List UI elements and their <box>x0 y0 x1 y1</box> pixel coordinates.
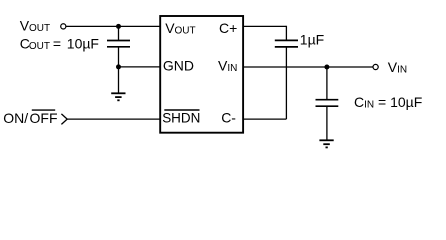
wire VOUT terminal to IC VOUT pin <box>66 25 160 27</box>
svg-text:GND: GND <box>163 58 194 74</box>
capacitor COUT <box>107 40 130 42</box>
wire corner down to C1 top plate <box>285 26 287 41</box>
op-amp U1 (IC body) <box>160 16 243 133</box>
wire back to IC C- pin <box>243 118 286 120</box>
svg-text:SHDN: SHDN <box>162 110 200 126</box>
wire IC VIN pin to VIN terminal <box>243 66 373 68</box>
svg-text:=: = <box>53 36 61 52</box>
ground (right) <box>319 140 333 147</box>
wire GND junction to IC GND pin <box>119 66 161 68</box>
svg-text:1µF: 1µF <box>300 32 324 48</box>
wire IC C+ pin to flying cap <box>243 25 286 27</box>
wire SHDN input to IC SHDN pin <box>67 118 160 120</box>
wire GND junction down to ground <box>118 67 120 93</box>
svg-text:10µF: 10µF <box>67 36 99 52</box>
overline for OFF <box>32 109 55 111</box>
capacitor C1 1uF (flying capacitor) <box>275 39 298 41</box>
wire COUT bottom plate down to GND junction <box>118 47 120 67</box>
ground (left) <box>111 93 125 100</box>
svg-text:ON/: ON/ <box>3 110 28 126</box>
wire C1 bottom plate down to C- level (crosses VIN wire) <box>285 47 287 119</box>
overline for SHDN <box>164 109 199 111</box>
node VIN terminal circle <box>373 64 378 69</box>
junction dot on VOUT wire <box>116 24 121 29</box>
wire VIN junction down to CIN top plate <box>326 67 328 100</box>
svg-text:C+: C+ <box>219 20 237 36</box>
wire CIN bottom plate down to ground <box>326 106 328 140</box>
junction dot on VIN wire <box>324 65 329 70</box>
svg-text:OFF: OFF <box>30 110 58 126</box>
node SHDN input chevron <box>61 114 67 125</box>
junction dot GND node <box>116 64 121 69</box>
svg-text:C-: C- <box>221 110 236 126</box>
node VOUT terminal circle <box>61 24 66 29</box>
capacitor CIN <box>316 99 339 101</box>
wire junction down to COUT top plate <box>118 26 120 40</box>
